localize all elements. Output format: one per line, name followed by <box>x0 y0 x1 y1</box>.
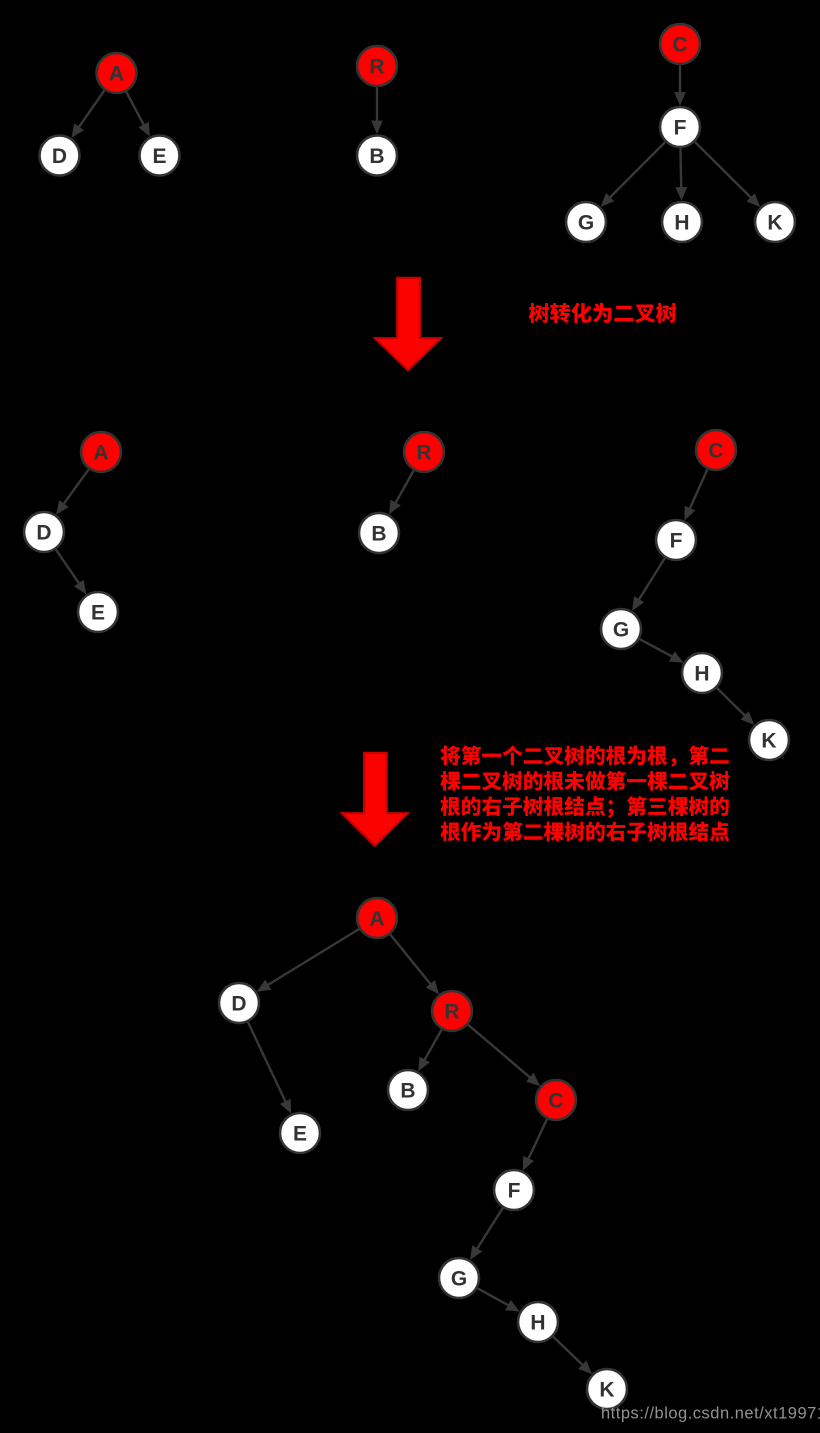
node tree1-top H <box>662 202 702 242</box>
edge tree-bottom A to D <box>257 929 359 992</box>
red arrow 1 down <box>375 278 441 370</box>
node tree-mid F <box>656 520 696 560</box>
edge tree-bottom G to H <box>478 1288 520 1311</box>
edge tree1-top F to G <box>601 142 665 207</box>
node tree-mid K <box>749 720 789 760</box>
node tree-bottom C (red root) <box>536 1080 576 1120</box>
svg-text:C: C <box>548 1090 563 1113</box>
node tree-mid A (red root) <box>81 432 121 472</box>
node tree1-top B <box>357 136 397 176</box>
edge tree1-top F to K <box>695 142 760 207</box>
edge tree1-top F to H <box>675 148 687 200</box>
edge tree1-top R to B <box>371 87 383 134</box>
node tree-mid R (red root) <box>404 432 444 472</box>
node tree1-top G <box>566 202 606 242</box>
node tree-bottom R (red root) <box>432 991 472 1031</box>
label line 3 <box>440 796 728 818</box>
node tree-bottom F <box>494 1170 534 1210</box>
svg-text:C: C <box>708 440 723 463</box>
svg-text:A: A <box>109 63 124 86</box>
label line 1 <box>440 745 728 766</box>
svg-text:A: A <box>93 442 108 465</box>
svg-text:B: B <box>371 523 386 546</box>
node tree-mid B <box>359 513 399 553</box>
edge tree-mid R to B <box>389 471 414 515</box>
svg-text:F: F <box>670 530 683 553</box>
edge tree-bottom C to F <box>523 1119 547 1170</box>
label: tree converts to binary tree <box>529 303 677 323</box>
edge tree-mid A to D <box>56 469 89 514</box>
node tree-mid E <box>78 592 118 632</box>
svg-text:K: K <box>761 730 776 753</box>
node tree1-top C (red root) <box>660 24 700 64</box>
node tree-bottom G <box>439 1258 479 1298</box>
edge tree1-top A to E <box>126 92 150 137</box>
svg-text:A: A <box>369 908 384 931</box>
svg-text:E: E <box>293 1123 307 1146</box>
svg-text:K: K <box>599 1379 614 1402</box>
svg-text:R: R <box>369 56 384 79</box>
edge tree-bottom H to K <box>553 1337 592 1374</box>
label line 2 <box>440 771 729 791</box>
svg-text:H: H <box>530 1312 545 1335</box>
svg-text:C: C <box>672 34 687 57</box>
edge tree-mid C to F <box>685 469 708 520</box>
svg-text:G: G <box>613 619 629 642</box>
node tree1-top A (red root) <box>97 53 137 93</box>
node tree1-top F <box>660 107 700 147</box>
svg-text:B: B <box>369 145 384 168</box>
node tree-mid H <box>682 653 722 693</box>
label line 4 <box>440 821 729 841</box>
edge tree1-top A to D <box>71 90 104 137</box>
node tree1-top K <box>755 202 795 242</box>
edge tree-bottom R to C <box>468 1025 540 1086</box>
svg-text:D: D <box>52 145 67 168</box>
svg-text:F: F <box>674 117 687 140</box>
node tree-mid D <box>24 512 64 552</box>
node tree-bottom H <box>518 1302 558 1342</box>
svg-text:R: R <box>416 442 431 465</box>
svg-text:D: D <box>231 993 246 1016</box>
node tree-bottom E <box>280 1113 320 1153</box>
edge tree-bottom D to E <box>248 1022 291 1113</box>
node tree-mid C (red root) <box>696 430 736 470</box>
svg-text:G: G <box>578 212 594 235</box>
svg-text:E: E <box>152 145 166 168</box>
node tree-bottom B <box>388 1070 428 1110</box>
node tree-bottom K <box>587 1369 627 1409</box>
svg-text:F: F <box>508 1180 521 1203</box>
node tree1-top R (red root) <box>357 46 397 86</box>
svg-text:D: D <box>36 522 51 545</box>
edge tree-mid D to E <box>56 550 86 595</box>
edge tree-mid H to K <box>717 688 754 725</box>
svg-text:G: G <box>451 1268 467 1291</box>
node tree1-top D <box>40 136 80 176</box>
edge tree-mid F to G <box>632 558 665 611</box>
edge tree-mid G to H <box>640 639 684 663</box>
svg-text:H: H <box>674 212 689 235</box>
edge tree-bottom R to B <box>418 1030 442 1072</box>
node tree-bottom D <box>219 983 259 1023</box>
svg-text:K: K <box>767 212 782 235</box>
edge tree1-top C to F <box>674 65 686 105</box>
svg-text:B: B <box>400 1080 415 1103</box>
svg-text:E: E <box>91 602 105 625</box>
svg-text:https://blog.csdn.net/xt199711: https://blog.csdn.net/xt199711 <box>601 1404 820 1422</box>
node tree-mid G <box>601 609 641 649</box>
edge tree-bottom A to R <box>390 935 439 995</box>
node tree-bottom A (red root) <box>357 898 397 938</box>
node tree1-top E <box>140 136 180 176</box>
edge tree-bottom F to G <box>470 1208 503 1260</box>
svg-text:R: R <box>444 1001 459 1024</box>
red arrow 2 down <box>342 753 408 846</box>
svg-text:H: H <box>694 663 709 686</box>
